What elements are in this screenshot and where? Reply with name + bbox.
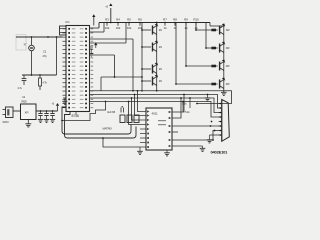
wire vertical x114 — [114, 55, 116, 77]
wire horizontal to base bus — [101, 76, 142, 78]
resistor base R at y84 — [211, 83, 216, 86]
wire bus to U3 pin 2 — [135, 95, 141, 116]
wire U1 pin to rail — [90, 27, 100, 29]
crystal Y1 block at U1 top-left — [60, 26, 67, 35]
capacitor C5 filter — [50, 113, 54, 115]
node C — [56, 36, 58, 38]
op-amp U1 microcontroller 8748 body — [66, 26, 90, 112]
svg-text:5.1k: 5.1k — [185, 110, 190, 114]
wire U1 pin row to x114 — [90, 54, 115, 56]
svg-text:R9: R9 — [184, 18, 188, 22]
node rail junction at +5V stem — [110, 22, 112, 24]
transistor Q6 segment driver — [219, 26, 220, 35]
wire keyboard loop outer — [62, 107, 131, 134]
resistor base R at y66 — [211, 65, 216, 68]
wire bus to U3 pin 1 — [138, 91, 141, 112]
power flag +5V (top) — [109, 3, 112, 6]
node I — [61, 120, 63, 122]
svg-text:4511: 4511 — [152, 112, 158, 116]
svg-text:9VDC: 9VDC — [3, 121, 10, 124]
wire rail to right chain — [209, 23, 211, 27]
wire base Q5 — [142, 80, 151, 82]
wire to connector top pin — [197, 103, 222, 105]
node F — [40, 110, 42, 112]
svg-text:R8: R8 — [173, 18, 177, 22]
switch S3 key — [134, 115, 139, 123]
wire top-left horizontal — [16, 36, 63, 38]
ground U3 left — [139, 147, 141, 151]
wire base Q8 — [185, 23, 187, 67]
transistor Q5 digit driver — [152, 77, 153, 86]
wire vertical base bus x142 — [141, 23, 143, 91]
wire bus to U3 pin 3 — [132, 98, 141, 120]
wire U3 right pin 15 — [172, 98, 181, 118]
wire bottom feed to U3 — [103, 138, 140, 147]
transistor Q4 digit driver — [152, 65, 153, 74]
node B — [47, 36, 49, 38]
wire U3 to connector pin lower — [172, 131, 222, 141]
wire rail left drop to IC — [98, 23, 100, 29]
ground mid-right — [207, 94, 209, 96]
regulator U2 7805 box — [21, 104, 37, 120]
wire base Q7 — [205, 23, 207, 49]
capacitor C3 filter — [38, 113, 42, 115]
power flag +5V above U1 right — [92, 14, 95, 17]
wire U1 to bus drop x133 — [90, 38, 134, 40]
faint enclosure box left — [16, 35, 26, 51]
capacitor C1 47uF — [23, 75, 25, 78]
op-amp U3 display decoder body — [146, 108, 172, 150]
wire U1 pin row 2 — [90, 31, 105, 33]
resistor base R at y48 — [211, 47, 216, 50]
node A — [31, 36, 33, 38]
wire bus to U3 pin 4 — [129, 102, 141, 125]
svg-text:R6: R6 — [138, 18, 142, 22]
node D — [31, 74, 33, 76]
U1 right pin number column — [91, 28, 94, 108]
wire +5V stem — [110, 8, 112, 23]
U1 left pin stubs — [63, 29, 67, 108]
svg-text:2N: 2N — [159, 28, 162, 32]
resistor R1 4.7k — [39, 75, 41, 78]
power flag +5V at regulator output — [56, 103, 59, 106]
wire keyboard staircase from bus — [62, 102, 106, 121]
svg-text:0402E101: 0402E101 — [211, 150, 229, 155]
connector J1 DC plug — [6, 107, 14, 118]
wire bus line 1 — [90, 91, 232, 104]
svg-text:4.7u: 4.7u — [18, 87, 23, 90]
capacitor C4 filter — [44, 113, 48, 115]
svg-text:R3: R3 — [105, 18, 109, 22]
wire base Q9 — [175, 23, 177, 85]
transistor Q8 segment driver — [219, 62, 220, 71]
wire U3 right stub — [172, 131, 178, 133]
svg-text:4x4 KB: 4x4 KB — [107, 110, 115, 114]
svg-text:2N: 2N — [159, 67, 162, 71]
transistor Q3 digit driver — [152, 43, 153, 52]
wire through Q1 vertical — [31, 37, 33, 45]
svg-text:R5: R5 — [127, 18, 131, 22]
wire U1 to rail drop x126 — [90, 42, 127, 44]
node K — [132, 90, 134, 92]
wire connector pin 8 to ground — [210, 134, 222, 136]
node E — [39, 74, 41, 76]
node G — [46, 110, 48, 112]
wire base Q6 — [195, 23, 197, 31]
ground U3 right-bottom — [166, 150, 168, 153]
wire base Q4 — [142, 68, 151, 70]
wire emitter chain middle column — [156, 23, 158, 91]
wire +5V top rail — [99, 22, 210, 24]
switch S0 contacts — [120, 108, 122, 113]
svg-text:DR: DR — [226, 28, 230, 32]
U1 pin pads — [68, 28, 87, 109]
wire U3 right pin 16 — [172, 95, 184, 113]
svg-text:8748: 8748 — [72, 114, 79, 118]
wire stub under U1 — [75, 112, 77, 116]
wire lower-left horizontal — [22, 74, 57, 76]
transistor Q2 digit driver — [152, 26, 153, 35]
U3 clock marks inside left — [147, 110, 149, 148]
U1 inner pin name text columns — [72, 28, 84, 108]
svg-text:DR: DR — [226, 64, 230, 68]
connector J2 pin line — [221, 100, 223, 142]
U3 inner right pads — [169, 111, 171, 147]
svg-text:R10: R10 — [193, 18, 199, 22]
U3 left pin stubs — [140, 112, 146, 148]
wire base Q2 — [142, 29, 151, 31]
svg-text:DR: DR — [226, 46, 230, 50]
wire bus line 2 — [90, 95, 222, 109]
wire base Q3 — [142, 46, 151, 48]
ground under right chain — [223, 90, 225, 92]
resistor base R at y30 — [211, 29, 216, 32]
wire emitter chain right column — [223, 26, 225, 90]
wire U3 to connector pin — [172, 125, 222, 127]
node H — [52, 110, 54, 112]
wire left vertical to U1 — [56, 37, 58, 75]
svg-text:R4: R4 — [116, 18, 120, 22]
svg-text:IC1: IC1 — [66, 20, 71, 24]
node L — [211, 121, 213, 123]
transistor Q1 oscillator circle — [29, 45, 35, 51]
wire regulator output +5V — [36, 110, 58, 112]
wire plug to regulator — [13, 110, 21, 112]
wire U1 vertical x101 — [100, 77, 102, 91]
svg-text:DR: DR — [226, 82, 230, 86]
svg-text:27p: 27p — [43, 54, 48, 58]
wire U3 pin to ground right — [172, 145, 203, 147]
switch S2 key — [127, 115, 132, 123]
connector J2 pins — [219, 104, 222, 136]
node I2 — [105, 101, 107, 103]
U3 inner label marks — [158, 120, 166, 125]
power flag +5V small — [94, 43, 97, 46]
node J3 — [141, 90, 143, 92]
ground at regulator — [27, 120, 29, 124]
transistor Q7 segment driver — [219, 44, 220, 53]
node J2 — [141, 76, 143, 78]
svg-text:10k: 10k — [116, 26, 121, 30]
wire bus line 3 — [90, 98, 222, 113]
svg-text:7805: 7805 — [21, 99, 27, 103]
wire keyboard loop inner — [65, 112, 137, 139]
switch S1 key — [120, 115, 125, 123]
connector J2 display body — [222, 100, 230, 142]
svg-text:MATRIX: MATRIX — [103, 127, 113, 131]
node M — [214, 130, 216, 132]
svg-text:10k: 10k — [127, 26, 132, 30]
capacitor C6 at U1 right — [90, 46, 94, 48]
svg-text:10k: 10k — [105, 26, 110, 30]
svg-text:2N: 2N — [159, 45, 162, 49]
ground at U1 lower-left pin — [63, 97, 66, 99]
svg-text:2N: 2N — [159, 79, 162, 83]
wire bus line 4 — [90, 102, 222, 118]
svg-text:R7: R7 — [163, 18, 167, 22]
transistor Q9 segment driver — [219, 80, 220, 89]
node J — [114, 76, 116, 78]
